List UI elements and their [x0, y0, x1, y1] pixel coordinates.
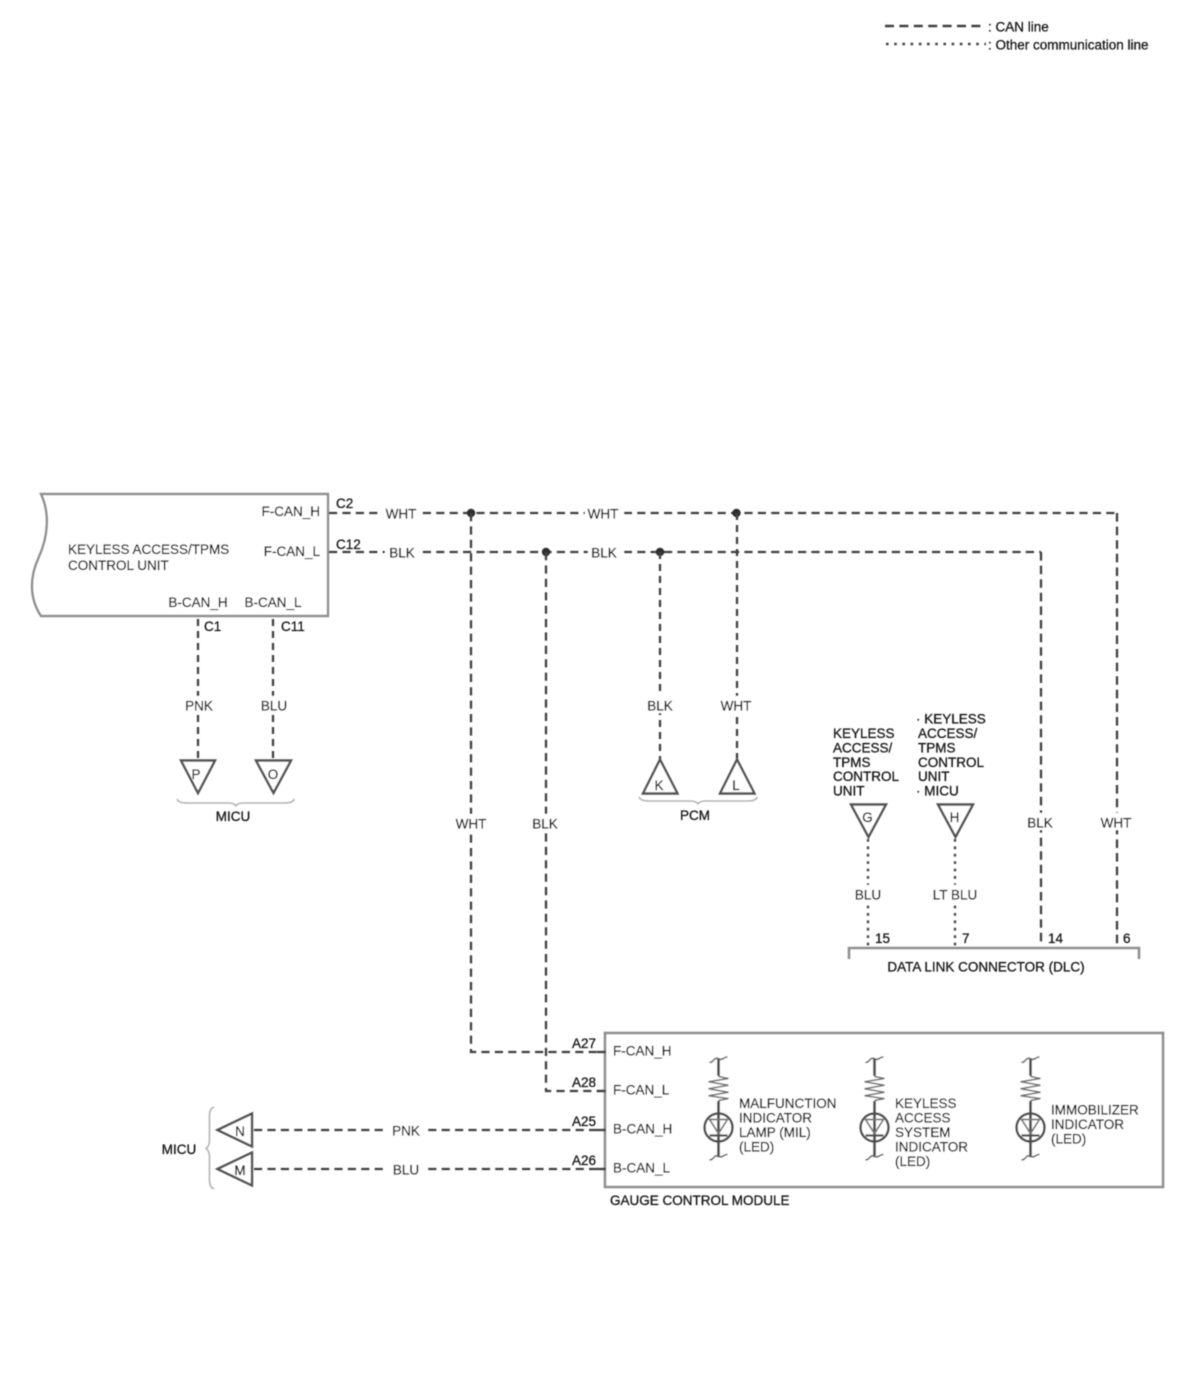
- svg-text:C2: C2: [336, 496, 353, 511]
- connector triangle K: [643, 760, 678, 794]
- svg-text:BLK: BLK: [532, 817, 558, 832]
- wire F-CAN_H WHT horizontal: [329, 512, 1117, 514]
- svg-text:BLK: BLK: [389, 546, 415, 561]
- svg-text:F-CAN_H: F-CAN_H: [613, 1044, 672, 1059]
- svg-text:LT BLU: LT BLU: [933, 888, 978, 903]
- svg-text:H: H: [950, 810, 960, 825]
- svg-text:B-CAN_L: B-CAN_L: [244, 595, 302, 610]
- LED lamp D3 immobilizer indicator: [1017, 1057, 1045, 1160]
- junction dot on WHT at x471: [467, 509, 475, 517]
- svg-text:CONTROL: CONTROL: [918, 755, 984, 770]
- svg-text:WHT: WHT: [456, 817, 487, 832]
- svg-text:: CAN line: : CAN line: [988, 20, 1049, 35]
- wire F-CAN_L BLK horizontal: [329, 551, 1041, 553]
- svg-text:PCM: PCM: [680, 808, 710, 823]
- svg-text:SYSTEM: SYSTEM: [895, 1125, 951, 1140]
- svg-text:F-CAN_L: F-CAN_L: [613, 1083, 670, 1098]
- junction dot on BLK at x660: [656, 548, 664, 556]
- LED lamp D1 malfunction indicator lamp: [705, 1057, 733, 1160]
- svg-text:15: 15: [875, 931, 890, 946]
- wire BLK drop to K: [659, 552, 661, 759]
- svg-text:GAUGE CONTROL MODULE: GAUGE CONTROL MODULE: [610, 1193, 790, 1208]
- svg-text:7: 7: [962, 931, 970, 946]
- svg-text:BLU: BLU: [261, 699, 287, 714]
- svg-text:LAMP (MIL): LAMP (MIL): [739, 1125, 811, 1140]
- svg-text:F-CAN_L: F-CAN_L: [264, 544, 321, 559]
- svg-text:PNK: PNK: [185, 699, 213, 714]
- svg-text:MICU: MICU: [162, 1142, 197, 1157]
- connector triangle G: [851, 805, 886, 838]
- svg-text:14: 14: [1048, 931, 1064, 946]
- svg-text:WHT: WHT: [1101, 816, 1132, 831]
- label IMMOBILIZER INDICATOR (LED): [1051, 1103, 1139, 1147]
- svg-text:: Other communication line: : Other communication line: [988, 38, 1149, 53]
- svg-text:UNIT: UNIT: [918, 769, 950, 784]
- pin stub A26: [597, 1168, 606, 1170]
- svg-text:F-CAN_H: F-CAN_H: [261, 504, 320, 519]
- wire WHT right drop to DLC pin 6: [1116, 513, 1118, 946]
- svg-text:C11: C11: [281, 619, 305, 634]
- svg-text:(LED): (LED): [895, 1154, 930, 1169]
- svg-text:INDICATOR: INDICATOR: [739, 1111, 812, 1126]
- svg-text:MALFUNCTION: MALFUNCTION: [739, 1096, 837, 1111]
- LED lamp D2 keyless access system indicator: [861, 1057, 889, 1160]
- svg-text:CONTROL: CONTROL: [833, 769, 899, 784]
- svg-text:ACCESS: ACCESS: [895, 1111, 951, 1126]
- connector triangle O: [256, 761, 291, 794]
- label MALFUNCTION INDICATOR LAMP (MIL) (LED): [739, 1096, 837, 1155]
- pin stub A27: [597, 1051, 606, 1053]
- svg-text:TPMS: TPMS: [833, 755, 871, 770]
- svg-text:BLK: BLK: [591, 546, 617, 561]
- connector triangle N: [218, 1114, 253, 1147]
- wire BLK drop to gauge A28: [546, 552, 604, 1091]
- svg-text:KEYLESS: KEYLESS: [833, 726, 895, 741]
- svg-text:G: G: [862, 810, 873, 825]
- svg-text:BLK: BLK: [647, 699, 673, 714]
- svg-text:ACCESS/: ACCESS/: [918, 726, 978, 741]
- svg-text:IMMOBILIZER: IMMOBILIZER: [1051, 1103, 1139, 1118]
- svg-text:BLK: BLK: [1027, 816, 1053, 831]
- data link connector DLC bracket: [849, 948, 1139, 959]
- connector triangle L: [720, 760, 755, 794]
- svg-text:K: K: [654, 778, 663, 793]
- label keyless access/TPMS control unit MICU (at H): [916, 712, 986, 799]
- svg-text:UNIT: UNIT: [833, 784, 865, 799]
- svg-text:A27: A27: [572, 1036, 596, 1051]
- svg-text:DATA LINK CONNECTOR (DLC): DATA LINK CONNECTOR (DLC): [887, 960, 1084, 975]
- wire B-CAN_L C11 to O: [272, 619, 274, 760]
- svg-text:(LED): (LED): [739, 1140, 774, 1155]
- svg-text:B-CAN_H: B-CAN_H: [168, 595, 227, 610]
- gauge control module box: [597, 1033, 1163, 1187]
- brace under P and O: [177, 799, 295, 806]
- wire B-CAN_L M to A26: [254, 1168, 604, 1170]
- svg-text:WHT: WHT: [386, 507, 417, 522]
- wire G to DLC pin 15 (other communication): [867, 839, 869, 946]
- svg-text:O: O: [268, 767, 279, 782]
- junction dot on BLK at x546: [542, 548, 550, 556]
- connector triangle H: [938, 805, 973, 838]
- svg-text:L: L: [732, 778, 740, 793]
- svg-text:M: M: [234, 1163, 245, 1178]
- pin stub A25: [597, 1129, 606, 1131]
- label KEYLESS ACCESS SYSTEM INDICATOR (LED): [895, 1096, 968, 1169]
- connector triangle M: [218, 1153, 253, 1186]
- wire WHT drop to gauge A27: [471, 513, 604, 1052]
- wire BLK right drop to DLC pin 14: [1040, 552, 1042, 946]
- svg-text:· KEYLESS: · KEYLESS: [916, 712, 986, 727]
- svg-text:BLU: BLU: [393, 1163, 419, 1178]
- label keyless access/TPMS control unit (at G): [833, 726, 899, 799]
- svg-text:KEYLESS: KEYLESS: [895, 1096, 957, 1111]
- svg-text:PNK: PNK: [392, 1124, 420, 1139]
- svg-text:CONTROL UNIT: CONTROL UNIT: [68, 558, 169, 573]
- svg-text:C12: C12: [336, 537, 361, 552]
- svg-text:· MICU: · MICU: [916, 784, 959, 799]
- svg-text:ACCESS/: ACCESS/: [833, 740, 893, 755]
- brace under K and L: [639, 797, 758, 804]
- junction dot on WHT at x735: [732, 509, 740, 517]
- svg-text:(LED): (LED): [1051, 1132, 1086, 1147]
- svg-text:A25: A25: [572, 1114, 596, 1129]
- svg-text:N: N: [235, 1124, 245, 1139]
- svg-text:B-CAN_L: B-CAN_L: [613, 1161, 671, 1176]
- wire B-CAN_H C1 to P: [197, 619, 199, 760]
- legend Other communication line sample: [886, 38, 1149, 53]
- pin stub A28: [597, 1090, 606, 1092]
- svg-text:P: P: [191, 767, 200, 782]
- svg-text:WHT: WHT: [721, 699, 752, 714]
- wire WHT drop to L: [736, 513, 738, 759]
- svg-text:INDICATOR: INDICATOR: [895, 1140, 968, 1155]
- svg-text:WHT: WHT: [588, 507, 619, 522]
- wire H to DLC pin 7 (other communication): [954, 839, 956, 946]
- svg-text:INDICATOR: INDICATOR: [1051, 1117, 1124, 1132]
- svg-text:A26: A26: [572, 1153, 596, 1168]
- brace left of N and M: [206, 1107, 214, 1189]
- svg-text:A28: A28: [572, 1075, 596, 1090]
- svg-text:KEYLESS ACCESS/TPMS: KEYLESS ACCESS/TPMS: [68, 542, 229, 557]
- connector triangle P: [181, 761, 215, 794]
- legend CAN line sample: [885, 20, 1049, 35]
- svg-text:6: 6: [1123, 931, 1131, 946]
- keyless access/TPMS control unit box U1: [32, 494, 328, 616]
- wire B-CAN_H N to A25: [254, 1129, 604, 1131]
- svg-text:TPMS: TPMS: [918, 740, 956, 755]
- svg-text:MICU: MICU: [216, 809, 251, 824]
- svg-text:B-CAN_H: B-CAN_H: [613, 1122, 672, 1137]
- svg-text:BLU: BLU: [855, 888, 881, 903]
- svg-text:C1: C1: [204, 619, 221, 634]
